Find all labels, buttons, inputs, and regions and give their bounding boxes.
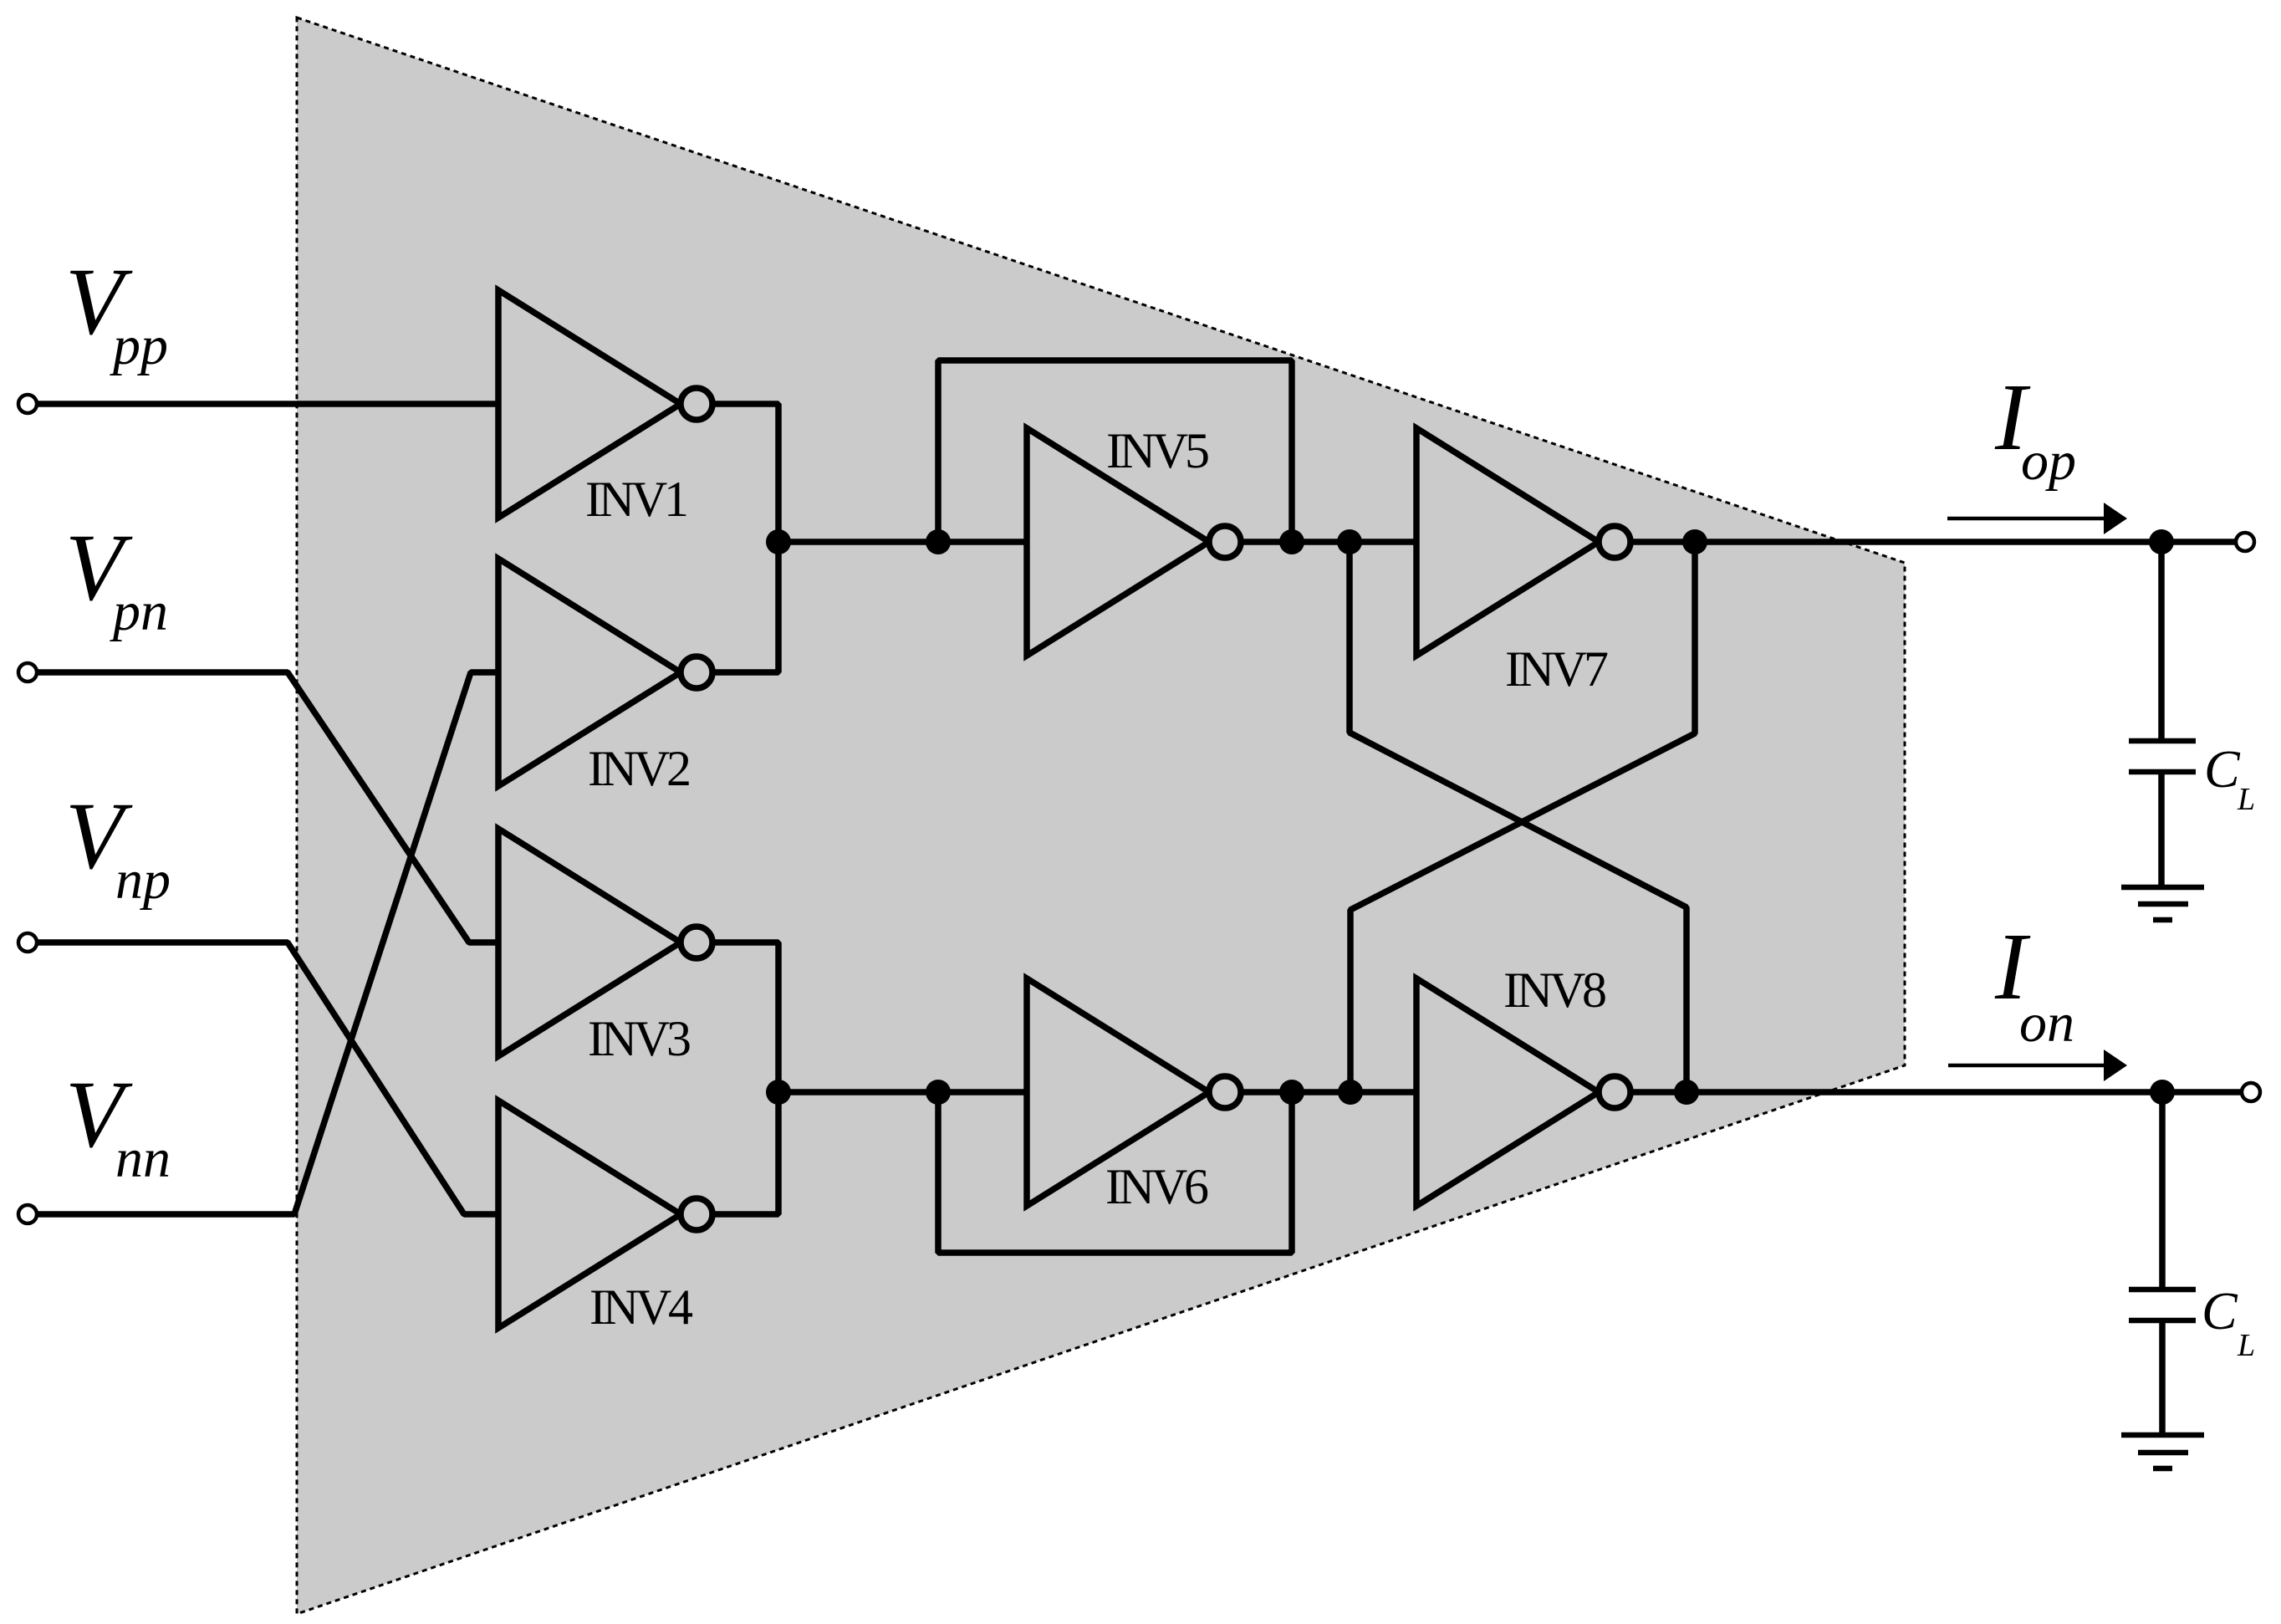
svg-text:np: np xyxy=(115,850,171,911)
capacitor CL top plates xyxy=(2129,738,2196,744)
ground bottom xyxy=(2121,1432,2204,1438)
junction dot: INV8 input / cross-coupling tap xyxy=(1338,1080,1363,1105)
input terminal Vnn xyxy=(18,1205,37,1223)
svg-text:on: on xyxy=(2019,993,2074,1054)
svg-text:C: C xyxy=(2204,739,2241,799)
junction dot: INV3/INV4 outputs join xyxy=(766,1080,791,1105)
wire top rail node to INV5 xyxy=(778,539,1027,545)
label CL top xyxy=(2204,739,2255,817)
junction dot: INV7 output node xyxy=(1682,529,1707,554)
junction dot: Iop output to CL xyxy=(2149,529,2174,554)
label Vnn xyxy=(65,1061,171,1189)
arrow Iop xyxy=(1947,517,2105,521)
wire Vnn input to INV2 xyxy=(37,672,498,1214)
capacitor CL bottom plates xyxy=(2129,1287,2196,1293)
wire Vpp input xyxy=(37,401,498,407)
svg-text:pp: pp xyxy=(110,315,168,376)
wire INV6 output to INV8 input xyxy=(1241,1089,1416,1095)
svg-text:INV7: INV7 xyxy=(1505,641,1609,697)
svg-text:op: op xyxy=(2021,431,2076,492)
svg-text:L: L xyxy=(2237,1328,2255,1363)
wire cross-coupling INV8 output to INV7 input xyxy=(1350,542,1687,1092)
svg-text:INV1: INV1 xyxy=(585,472,689,527)
wire INV5 output to INV7 input xyxy=(1241,539,1416,545)
svg-text:INV5: INV5 xyxy=(1106,423,1210,478)
inverter INV1 xyxy=(498,290,681,518)
wire INV2 output to top node xyxy=(712,542,778,672)
wire INV1 output to top node xyxy=(712,404,778,542)
svg-text:pn: pn xyxy=(110,581,168,642)
svg-text:nn: nn xyxy=(115,1128,171,1189)
junction dot: INV6 feedback tap xyxy=(926,1080,951,1105)
wire INV5 feedback loop xyxy=(938,360,1292,542)
wire bottom rail node to INV6 xyxy=(778,1089,1027,1095)
label Vpp xyxy=(65,248,168,376)
junction dot: Ion output to CL xyxy=(2150,1080,2175,1105)
wire INV4 output to bottom node xyxy=(712,1092,778,1214)
junction dot: INV6 feedback return xyxy=(1279,1080,1304,1105)
capacitor CL bottom lead xyxy=(2159,1092,2166,1289)
junction dot: INV8 output node xyxy=(1674,1080,1699,1105)
junction dot: INV7 input / cross-coupling tap xyxy=(1337,529,1362,554)
inverter INV4 xyxy=(498,1101,681,1328)
wire cross-coupling INV7 output to INV8 input xyxy=(1350,542,1695,1092)
svg-text:INV3: INV3 xyxy=(588,1011,691,1066)
svg-text:INV4: INV4 xyxy=(589,1279,693,1335)
output terminal Iop xyxy=(2236,533,2254,551)
input terminal Vpn xyxy=(18,663,37,682)
wire INV6 feedback loop xyxy=(938,1092,1292,1253)
wire INV7 output to Iop terminal xyxy=(1630,539,2236,545)
label CL bottom xyxy=(2202,1281,2255,1363)
inverter INV2 xyxy=(498,559,681,786)
junction dot: INV1/INV2 outputs join xyxy=(766,529,791,554)
label Iop xyxy=(1994,364,2076,492)
svg-text:C: C xyxy=(2202,1281,2238,1341)
label Vnp xyxy=(65,783,171,911)
wire Vpn input to INV3 xyxy=(37,672,498,942)
label Vpn xyxy=(65,514,168,642)
wire Vnp input to INV4 xyxy=(37,942,498,1214)
junction dot: INV5 feedback return xyxy=(1279,529,1304,554)
svg-text:INV6: INV6 xyxy=(1105,1159,1209,1214)
wire INV8 output to Ion terminal xyxy=(1630,1089,2242,1095)
capacitor CL top lead xyxy=(2158,542,2165,741)
inverter INV7 xyxy=(1416,428,1599,656)
wire INV3 output to bottom node xyxy=(712,942,778,1092)
amplifier body (gray trapezoid, dotted border) xyxy=(297,18,1905,1614)
inverter INV3 xyxy=(498,829,681,1056)
inverter INV8 xyxy=(1416,978,1599,1206)
label Ion xyxy=(1994,913,2074,1054)
input terminal Vnp xyxy=(18,933,37,952)
svg-text:INV8: INV8 xyxy=(1503,963,1607,1018)
svg-text:L: L xyxy=(2237,782,2255,817)
arrow Ion xyxy=(1948,1064,2105,1068)
output terminal Ion xyxy=(2242,1083,2260,1101)
svg-text:INV2: INV2 xyxy=(588,741,691,796)
inverter INV6 xyxy=(1027,978,1209,1206)
junction dot: INV5 feedback tap xyxy=(926,529,951,554)
inverter INV5 xyxy=(1027,428,1209,656)
input terminal Vpp xyxy=(18,395,37,413)
ground top xyxy=(2121,885,2204,891)
